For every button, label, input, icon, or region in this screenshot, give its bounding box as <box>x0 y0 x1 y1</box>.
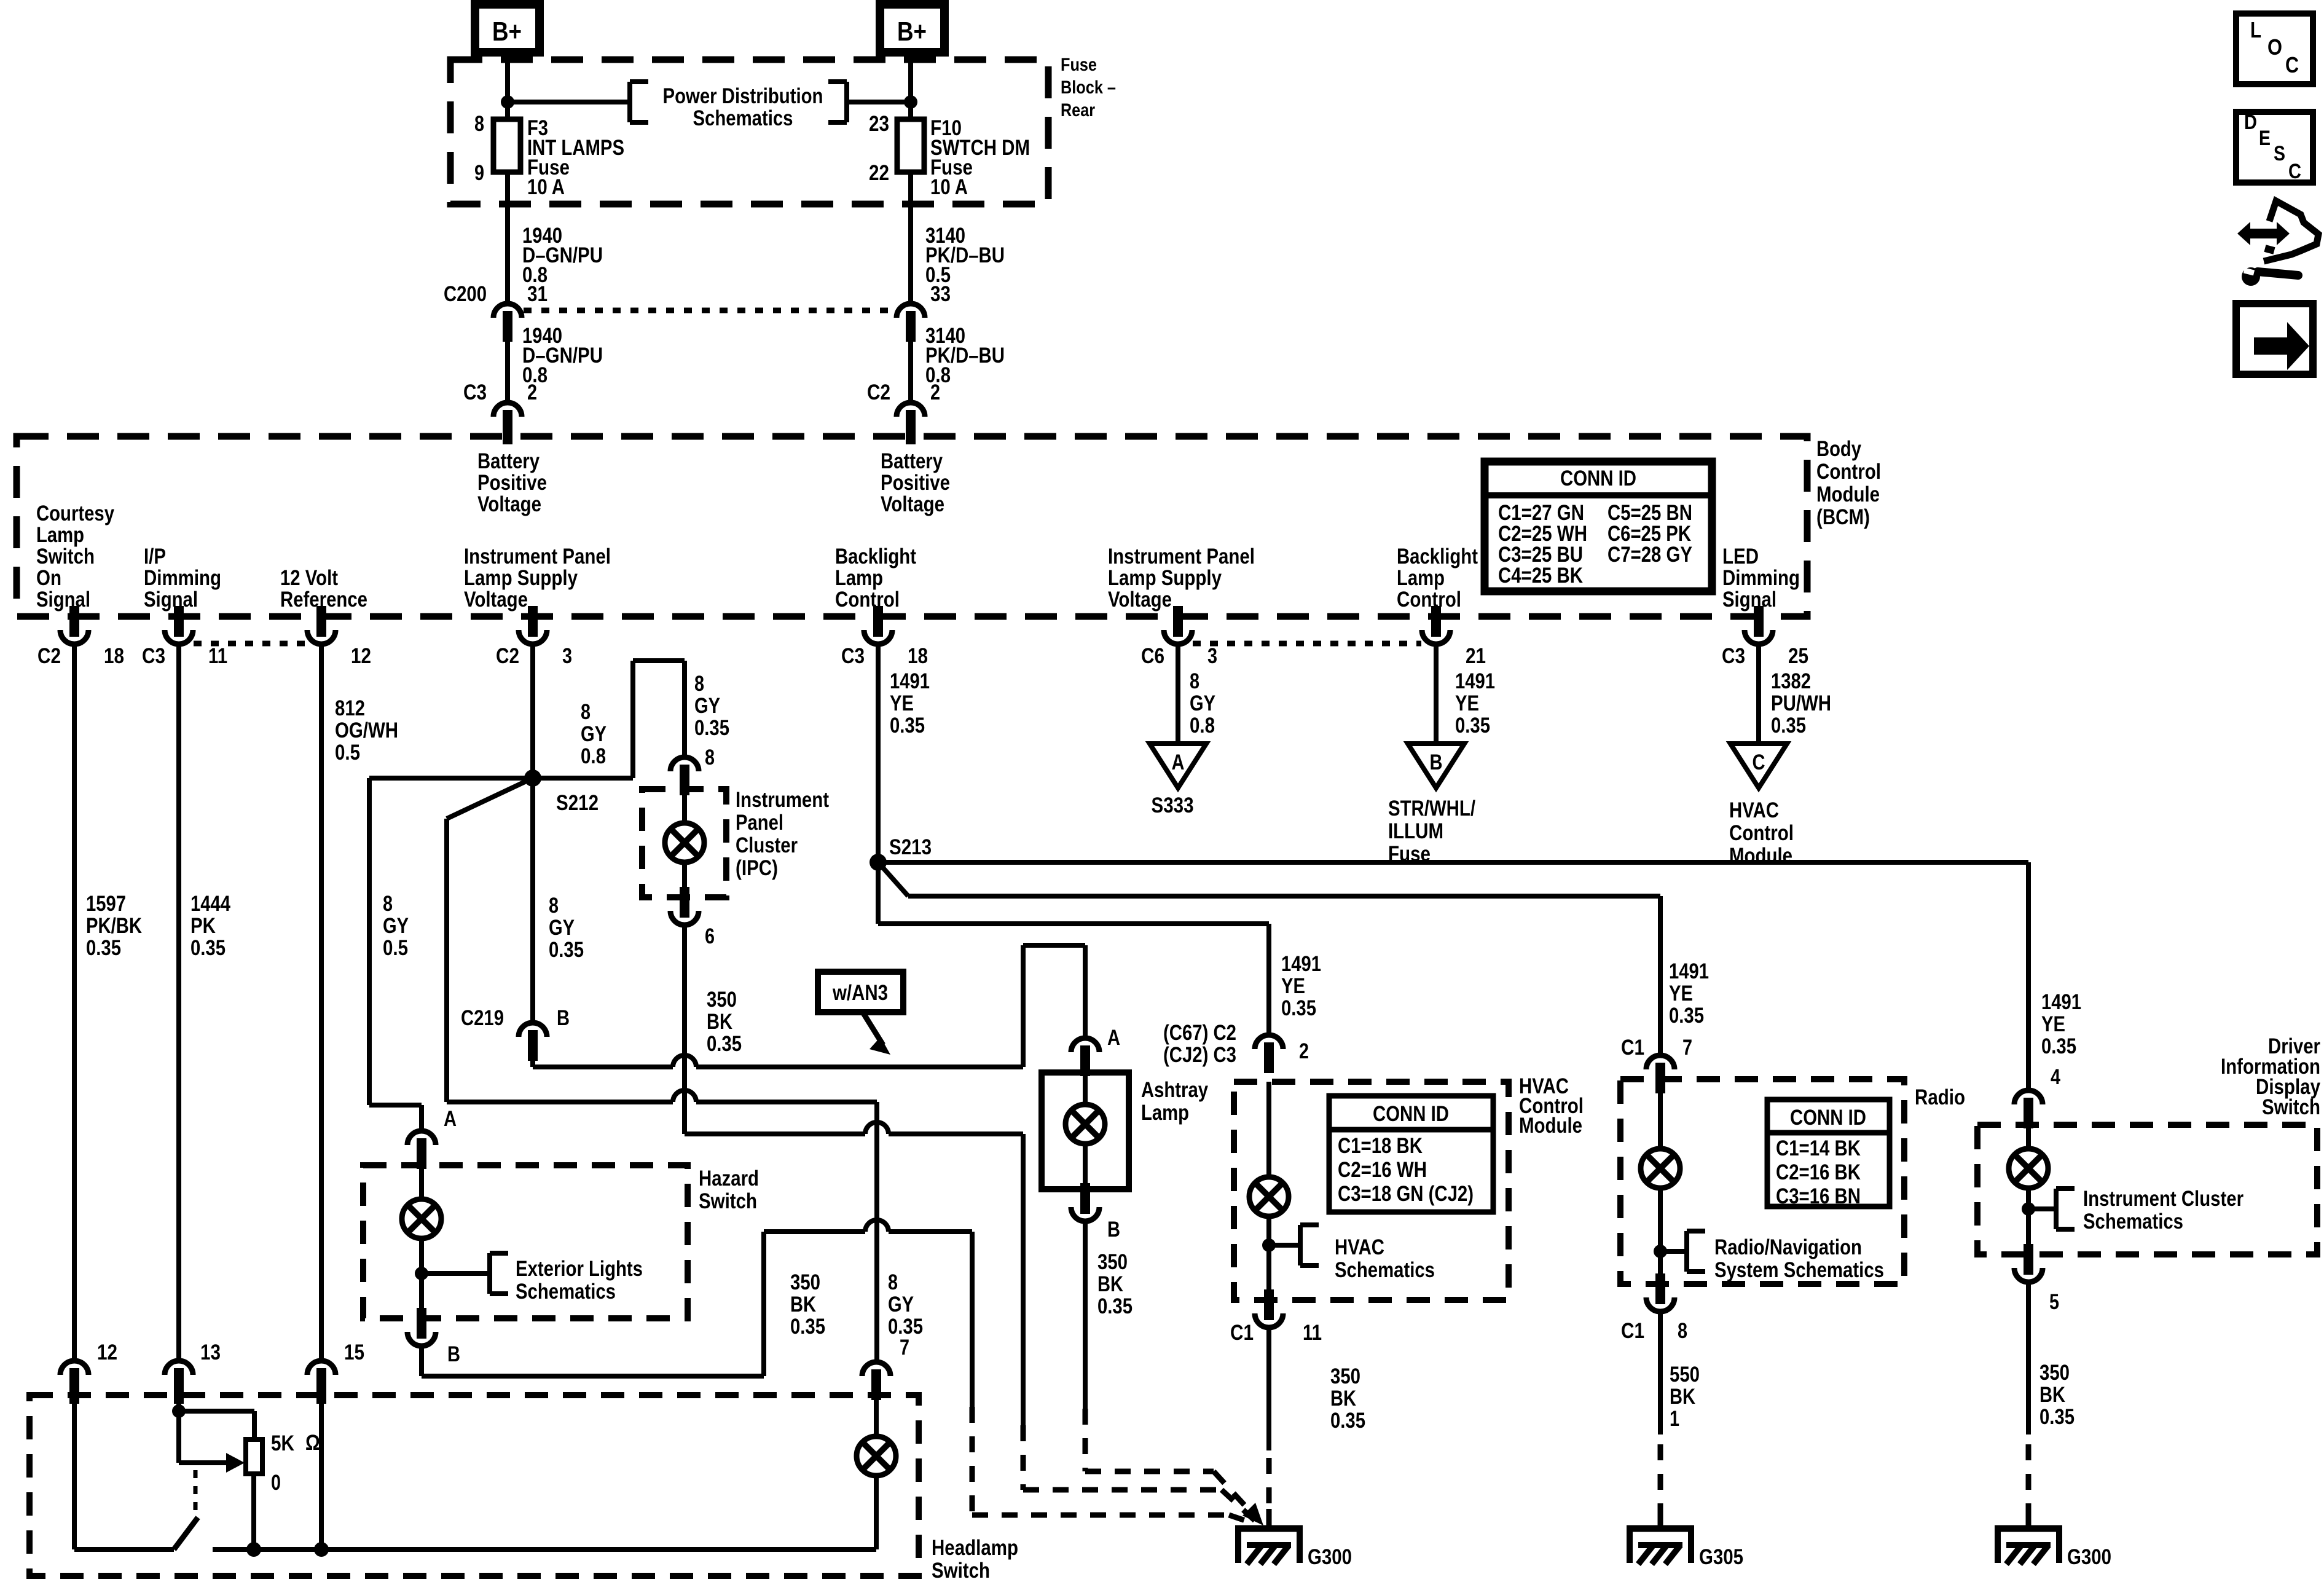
svg-text:1597: 1597 <box>86 892 126 916</box>
svg-text:Battery: Battery <box>881 449 943 473</box>
svg-text:Voltage: Voltage <box>1108 588 1172 612</box>
svg-text:9: 9 <box>474 161 484 185</box>
svg-text:7: 7 <box>1682 1036 1692 1060</box>
svg-text:0.5: 0.5 <box>335 741 360 765</box>
svg-text:w/AN3: w/AN3 <box>832 981 888 1005</box>
svg-text:Control: Control <box>1816 460 1881 484</box>
svg-text:Dimming: Dimming <box>1722 566 1800 590</box>
svg-text:YE: YE <box>1455 691 1479 715</box>
svg-text:(CJ2) C3: (CJ2) C3 <box>1163 1043 1236 1067</box>
svg-text:Headlamp: Headlamp <box>932 1536 1018 1560</box>
svg-text:15: 15 <box>344 1340 364 1364</box>
svg-text:E: E <box>2259 127 2271 150</box>
svg-text:Voltage: Voltage <box>881 492 944 516</box>
svg-text:C3: C3 <box>463 380 487 404</box>
svg-text:350: 350 <box>2039 1361 2070 1385</box>
svg-text:0.35: 0.35 <box>2041 1034 2076 1058</box>
svg-text:C3: C3 <box>1722 644 1745 668</box>
svg-text:Backlight: Backlight <box>835 545 916 569</box>
svg-text:12: 12 <box>351 644 371 668</box>
svg-text:BK: BK <box>707 1010 732 1034</box>
svg-text:System Schematics: System Schematics <box>1714 1258 1884 1282</box>
svg-text:HVAC: HVAC <box>1335 1235 1384 1259</box>
svg-text:Module: Module <box>1816 482 1880 506</box>
svg-text:Switch: Switch <box>699 1189 757 1213</box>
svg-text:YE: YE <box>2041 1012 2065 1036</box>
svg-text:31: 31 <box>527 282 548 306</box>
svg-text:C: C <box>2285 52 2299 77</box>
svg-text:PK/BK: PK/BK <box>86 914 142 938</box>
svg-text:L: L <box>2250 17 2261 42</box>
svg-text:10 A: 10 A <box>527 175 565 199</box>
svg-text:Positive: Positive <box>881 471 950 495</box>
svg-text:S333: S333 <box>1152 793 1194 817</box>
svg-text:S: S <box>2274 142 2285 165</box>
svg-text:A: A <box>1172 750 1185 774</box>
svg-text:Exterior Lights: Exterior Lights <box>516 1257 643 1281</box>
svg-text:BK: BK <box>790 1293 816 1316</box>
svg-text:Lamp: Lamp <box>1397 566 1445 590</box>
svg-text:BK: BK <box>1330 1387 1356 1411</box>
svg-text:0.8: 0.8 <box>581 744 606 768</box>
svg-text:1491: 1491 <box>1669 959 1709 983</box>
svg-text:8: 8 <box>888 1270 898 1294</box>
svg-text:C7=28 GY: C7=28 GY <box>1608 543 1692 567</box>
svg-text:C2: C2 <box>496 644 519 668</box>
svg-text:C3: C3 <box>142 644 165 668</box>
svg-text:C1: C1 <box>1621 1036 1644 1060</box>
svg-text:YE: YE <box>890 691 914 715</box>
svg-text:Rear: Rear <box>1061 100 1095 120</box>
svg-text:Schematics: Schematics <box>2083 1210 2183 1234</box>
svg-text:Lamp: Lamp <box>835 566 883 590</box>
svg-text:PU/WH: PU/WH <box>1771 691 1831 715</box>
svg-text:1491: 1491 <box>1455 669 1495 693</box>
svg-text:YE: YE <box>1669 982 1693 1005</box>
svg-text:C219: C219 <box>461 1006 504 1030</box>
svg-text:Lamp Supply: Lamp Supply <box>1108 566 1222 590</box>
svg-text:8: 8 <box>383 892 393 916</box>
svg-text:Cluster: Cluster <box>736 833 798 857</box>
svg-text:8: 8 <box>705 746 715 769</box>
svg-text:812: 812 <box>335 696 365 720</box>
svg-text:Control: Control <box>1397 588 1461 612</box>
svg-text:0.35: 0.35 <box>549 938 584 962</box>
svg-text:12: 12 <box>97 1340 117 1364</box>
svg-text:On: On <box>36 566 61 590</box>
svg-text:Backlight: Backlight <box>1397 545 1478 569</box>
svg-text:Ω: Ω <box>305 1431 320 1455</box>
svg-text:Hazard: Hazard <box>699 1167 759 1190</box>
svg-text:A: A <box>1107 1026 1120 1050</box>
svg-text:C1=14 BK: C1=14 BK <box>1776 1136 1861 1160</box>
svg-text:STR/WHL/: STR/WHL/ <box>1388 797 1475 821</box>
svg-text:GY: GY <box>549 916 575 940</box>
svg-text:Power Distribution: Power Distribution <box>663 84 823 108</box>
svg-text:Battery: Battery <box>477 449 540 473</box>
svg-text:Schematics: Schematics <box>516 1280 616 1304</box>
svg-text:Signal: Signal <box>36 588 90 612</box>
svg-text:350: 350 <box>790 1270 820 1294</box>
svg-text:4: 4 <box>2051 1065 2060 1089</box>
svg-text:0.35: 0.35 <box>2039 1405 2075 1429</box>
svg-text:18: 18 <box>908 644 928 668</box>
svg-text:2: 2 <box>527 380 537 404</box>
svg-text:0.35: 0.35 <box>888 1315 923 1339</box>
svg-text:GY: GY <box>581 722 607 746</box>
svg-text:Instrument: Instrument <box>736 788 829 812</box>
svg-text:5: 5 <box>2049 1290 2059 1314</box>
svg-text:Lamp: Lamp <box>36 523 84 547</box>
svg-text:Signal: Signal <box>1722 588 1776 612</box>
svg-text:8: 8 <box>1190 669 1199 693</box>
svg-text:Switch: Switch <box>2262 1095 2320 1119</box>
svg-text:0.35: 0.35 <box>1281 996 1316 1020</box>
svg-text:Ashtray: Ashtray <box>1141 1078 1208 1102</box>
svg-text:21: 21 <box>1466 644 1486 668</box>
svg-text:B+: B+ <box>492 17 522 47</box>
svg-text:GY: GY <box>1190 691 1215 715</box>
svg-text:C2=16 BK: C2=16 BK <box>1776 1160 1861 1184</box>
svg-text:Schematics: Schematics <box>693 106 793 130</box>
svg-text:Lamp Supply: Lamp Supply <box>464 566 578 590</box>
svg-text:(IPC): (IPC) <box>736 856 778 880</box>
svg-text:0.35: 0.35 <box>694 716 729 740</box>
svg-text:1382: 1382 <box>1771 669 1811 693</box>
svg-text:YE: YE <box>1281 974 1305 998</box>
svg-text:0.35: 0.35 <box>1455 714 1490 738</box>
svg-text:Radio: Radio <box>1915 1085 1965 1109</box>
svg-text:550: 550 <box>1670 1363 1700 1387</box>
svg-text:Courtesy: Courtesy <box>36 502 114 525</box>
svg-text:Body: Body <box>1816 437 1861 461</box>
svg-text:C3: C3 <box>841 644 865 668</box>
svg-text:PK: PK <box>190 914 216 938</box>
svg-text:2: 2 <box>930 380 940 404</box>
svg-text:11: 11 <box>1303 1321 1322 1345</box>
svg-text:0.35: 0.35 <box>790 1315 825 1339</box>
svg-text:CONN ID: CONN ID <box>1560 466 1636 490</box>
svg-text:C2: C2 <box>37 644 61 668</box>
svg-text:B: B <box>1107 1218 1120 1242</box>
svg-text:C: C <box>2288 160 2301 183</box>
svg-text:Voltage: Voltage <box>477 492 541 516</box>
svg-text:(C67) C2: (C67) C2 <box>1163 1021 1236 1045</box>
svg-text:350: 350 <box>707 988 737 1012</box>
svg-text:D: D <box>2244 111 2257 134</box>
svg-text:12 Volt: 12 Volt <box>280 566 338 590</box>
svg-text:22: 22 <box>869 161 889 185</box>
svg-text:Switch: Switch <box>36 545 95 569</box>
svg-text:Positive: Positive <box>477 471 547 495</box>
svg-text:Control: Control <box>835 588 900 612</box>
svg-text:Lamp: Lamp <box>1141 1101 1189 1125</box>
svg-text:25: 25 <box>1788 644 1808 668</box>
svg-text:0.35: 0.35 <box>707 1032 742 1056</box>
svg-text:Voltage: Voltage <box>464 588 528 612</box>
svg-text:7: 7 <box>900 1336 909 1360</box>
svg-text:BK: BK <box>1097 1272 1123 1296</box>
svg-text:1491: 1491 <box>2041 990 2081 1014</box>
svg-text:Panel: Panel <box>736 811 783 835</box>
svg-text:C1: C1 <box>1621 1319 1644 1343</box>
svg-text:Switch: Switch <box>932 1559 990 1579</box>
svg-text:350: 350 <box>1097 1250 1128 1274</box>
svg-text:350: 350 <box>1330 1364 1360 1388</box>
svg-text:Schematics: Schematics <box>1335 1258 1435 1282</box>
svg-text:G300: G300 <box>2067 1545 2111 1569</box>
svg-text:3: 3 <box>562 644 572 668</box>
svg-text:Instrument Panel: Instrument Panel <box>1108 545 1255 569</box>
svg-text:1444: 1444 <box>190 892 230 916</box>
svg-text:C200: C200 <box>444 282 487 306</box>
svg-text:S212: S212 <box>556 791 599 815</box>
svg-text:C2=16 WH: C2=16 WH <box>1338 1158 1427 1182</box>
svg-text:Module: Module <box>1519 1114 1582 1138</box>
svg-text:C3=16 BN: C3=16 BN <box>1776 1184 1861 1208</box>
svg-text:8: 8 <box>474 112 484 136</box>
svg-text:OG/WH: OG/WH <box>335 718 398 742</box>
svg-text:0.35: 0.35 <box>1330 1409 1365 1433</box>
svg-text:S213: S213 <box>889 835 932 859</box>
svg-text:Instrument Panel: Instrument Panel <box>464 545 611 569</box>
svg-text:B+: B+ <box>897 17 927 47</box>
svg-text:GY: GY <box>888 1293 914 1316</box>
svg-text:8: 8 <box>581 700 591 724</box>
svg-text:0.5: 0.5 <box>383 936 408 960</box>
svg-text:CONN ID: CONN ID <box>1790 1106 1866 1130</box>
svg-text:0.35: 0.35 <box>1771 714 1806 738</box>
svg-text:Fuse: Fuse <box>1061 55 1097 75</box>
svg-text:B: B <box>557 1006 570 1030</box>
svg-text:C4=25 BK: C4=25 BK <box>1498 564 1583 588</box>
svg-text:CONN ID: CONN ID <box>1373 1102 1449 1126</box>
svg-text:O: O <box>2267 34 2282 60</box>
svg-text:1: 1 <box>1670 1407 1679 1431</box>
svg-text:B: B <box>1430 750 1443 774</box>
svg-text:0.35: 0.35 <box>1669 1004 1704 1028</box>
svg-text:8: 8 <box>694 672 704 696</box>
svg-text:(BCM): (BCM) <box>1816 505 1870 529</box>
svg-text:LED: LED <box>1722 545 1759 569</box>
svg-text:8: 8 <box>1678 1319 1687 1343</box>
svg-text:23: 23 <box>869 112 889 136</box>
svg-text:G300: G300 <box>1308 1545 1352 1569</box>
svg-text:G305: G305 <box>1699 1545 1743 1569</box>
svg-text:Block –: Block – <box>1061 77 1116 98</box>
svg-text:BK: BK <box>2039 1383 2065 1407</box>
svg-text:5K: 5K <box>271 1431 294 1455</box>
svg-text:0.35: 0.35 <box>190 936 226 960</box>
svg-text:C6: C6 <box>1141 644 1164 668</box>
svg-text:0.8: 0.8 <box>1190 714 1215 738</box>
svg-text:Radio/Navigation: Radio/Navigation <box>1714 1235 1862 1259</box>
svg-text:Instrument Cluster: Instrument Cluster <box>2083 1187 2244 1211</box>
svg-text:0: 0 <box>271 1471 281 1495</box>
svg-text:GY: GY <box>383 914 409 938</box>
svg-text:Signal: Signal <box>144 588 198 612</box>
svg-text:C3=18 GN (CJ2): C3=18 GN (CJ2) <box>1338 1182 1474 1206</box>
svg-text:33: 33 <box>930 282 951 306</box>
svg-text:C1: C1 <box>1230 1321 1254 1345</box>
svg-text:2: 2 <box>1299 1039 1309 1063</box>
svg-text:A: A <box>444 1107 457 1131</box>
svg-text:ILLUM: ILLUM <box>1388 819 1443 843</box>
svg-text:I/P: I/P <box>144 545 166 569</box>
svg-text:1491: 1491 <box>890 669 930 693</box>
svg-text:C1=18 BK: C1=18 BK <box>1338 1134 1423 1158</box>
svg-text:18: 18 <box>104 644 124 668</box>
svg-text:C: C <box>1753 750 1765 774</box>
svg-text:0.35: 0.35 <box>86 936 121 960</box>
svg-text:0.35: 0.35 <box>1097 1294 1133 1318</box>
svg-text:0.35: 0.35 <box>890 714 925 738</box>
svg-text:1491: 1491 <box>1281 952 1321 976</box>
svg-text:C2: C2 <box>867 380 890 404</box>
svg-text:11: 11 <box>208 644 227 668</box>
svg-text:8: 8 <box>549 894 559 918</box>
svg-text:Dimming: Dimming <box>144 566 221 590</box>
svg-text:Control: Control <box>1729 821 1794 845</box>
svg-text:GY: GY <box>694 694 720 718</box>
svg-text:13: 13 <box>200 1340 221 1364</box>
svg-text:HVAC: HVAC <box>1729 798 1779 822</box>
svg-text:10 A: 10 A <box>930 175 968 199</box>
svg-text:BK: BK <box>1670 1385 1695 1409</box>
svg-text:6: 6 <box>705 924 715 948</box>
svg-text:3: 3 <box>1207 644 1217 668</box>
svg-text:B: B <box>447 1342 460 1366</box>
